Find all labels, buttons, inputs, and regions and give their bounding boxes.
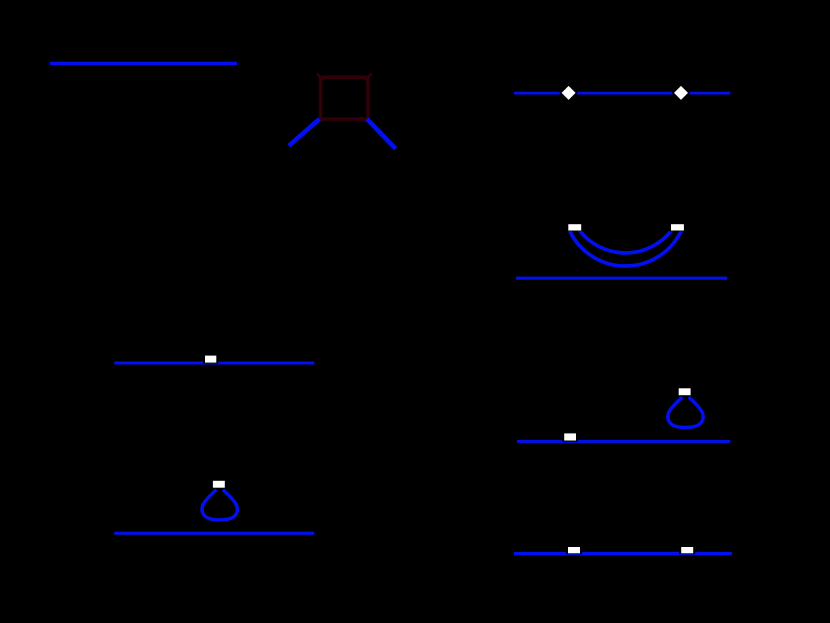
marked point: diamond 2 <box>674 86 688 100</box>
endpoint marker left <box>568 224 581 230</box>
marked point (middle left) <box>205 356 216 363</box>
tadpole marker halo (bottom left) <box>211 479 227 489</box>
tadpole loop (right) <box>668 397 703 427</box>
vertex square (dark red) <box>321 77 369 119</box>
tadpole marker (right) <box>679 388 691 395</box>
strip worldsheet: outer arc <box>570 231 682 267</box>
tadpole marker (bottom left) <box>213 481 225 488</box>
wire: D-brane line with marked point and tadpole (middle right) <box>517 440 730 443</box>
tadpole marker halo (right) <box>677 386 693 396</box>
wire: D-brane line with one marked point (middle left) <box>114 361 314 364</box>
wire: D-brane line (bottom left) <box>114 532 314 535</box>
marked point: diamond 1 <box>562 86 576 100</box>
marked point halo (middle left) <box>203 354 218 364</box>
wire: D-brane line with two marked points (bottom right) <box>514 552 732 556</box>
wire: plain D-brane line (top left) <box>50 62 237 65</box>
marked point halo (middle right) <box>562 431 578 441</box>
tick at square top-right corner <box>365 74 372 81</box>
marked point 1 halo (bottom right) <box>566 545 582 554</box>
wire: blue leg right of vertex <box>367 119 396 149</box>
endpoint marker right <box>671 224 684 230</box>
marked point 1 (bottom right) <box>568 547 580 553</box>
wire: D-brane line with two marked points (top right) <box>514 92 730 95</box>
tadpole loop (bottom left) <box>202 490 237 520</box>
marked point (middle right) <box>564 433 576 440</box>
marked point 2 (bottom right) <box>681 547 693 553</box>
wire: blue leg left of vertex <box>289 119 320 146</box>
tick at square top-left corner <box>317 74 324 81</box>
marked point 2 halo (bottom right) <box>679 545 695 554</box>
endpoint marker left halo <box>566 222 583 231</box>
marked point: diamond 2 halo <box>672 84 691 103</box>
wire: D-brane line below strip <box>516 277 727 280</box>
marked point: diamond 1 halo <box>559 84 578 103</box>
endpoint marker right halo <box>669 222 686 231</box>
strip worldsheet: inner arc <box>580 231 672 253</box>
